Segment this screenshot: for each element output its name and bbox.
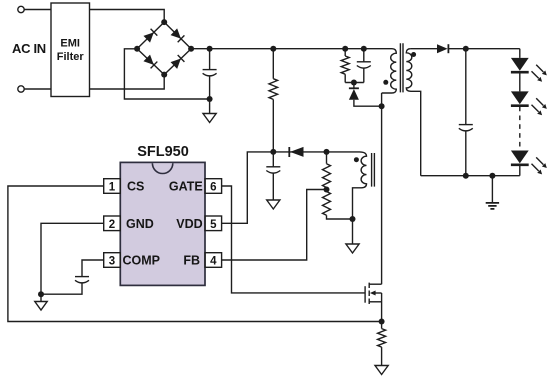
svg-text:CS: CS bbox=[127, 180, 144, 194]
wire: MOSFET source to sense node bbox=[381, 293, 383, 322]
IC pin 5 box bbox=[205, 216, 222, 231]
transformer auxiliary winding bbox=[353, 152, 367, 219]
wire: COMP pin3 to comp cap bbox=[82, 260, 104, 276]
junction: bridge bottom node bbox=[161, 72, 167, 78]
wire: top terminal to EMI filter bbox=[24, 9, 51, 11]
junction: GND/COMP ground node bbox=[38, 291, 44, 297]
junction: bulk cap top on DC rail bbox=[207, 46, 213, 52]
earth ground: output return bbox=[491, 176, 493, 203]
transformer T1 core bbox=[400, 43, 403, 92]
bridge diode D4 (bottom node to right node) bbox=[170, 55, 184, 69]
capacitor: VDD bypass cap bbox=[272, 152, 274, 167]
svg-text:GND: GND bbox=[126, 217, 154, 231]
svg-text:EMI: EMI bbox=[60, 38, 80, 50]
svg-text:5: 5 bbox=[210, 219, 217, 231]
svg-text:SFL950: SFL950 bbox=[137, 144, 189, 160]
phase dot: secondary bbox=[411, 52, 416, 57]
IC pin 4 box bbox=[205, 253, 222, 268]
junction: bridge left node bbox=[134, 46, 140, 52]
wire: LED3 to return rail bbox=[519, 165, 521, 176]
LED D9 light arrows bbox=[536, 157, 547, 168]
svg-text:VDD: VDD bbox=[176, 217, 202, 231]
phase dot: aux winding bbox=[354, 157, 359, 162]
junction: snubber RC bottom bbox=[351, 80, 357, 86]
junction: output cap bottom bbox=[463, 173, 469, 179]
wire: secondary top to output diode bbox=[411, 48, 437, 50]
junction: output cap top bbox=[463, 46, 469, 52]
junction: aux winding bottom bbox=[350, 216, 356, 222]
wire: bridge negative return (left node down and right to bulk cap) bbox=[124, 49, 209, 99]
IC U1 SFL950 body bbox=[120, 162, 205, 285]
wire: CS pin1 loop to current sense node bbox=[8, 186, 382, 322]
transformer T1 primary winding bbox=[382, 49, 397, 93]
junction: startup resistor top on DC rail bbox=[270, 46, 276, 52]
LED D7 bbox=[511, 58, 529, 71]
ground: input bulk cap bbox=[209, 99, 211, 114]
wire: MOSFET drain to primary bottom bbox=[381, 93, 383, 284]
wire: bottom terminal to EMI filter bbox=[24, 88, 51, 90]
ground: VDD cap bbox=[267, 200, 280, 209]
LED D9 bbox=[511, 151, 529, 164]
wire: VDD node to aux winding (through diode) bbox=[273, 151, 359, 153]
transformer T1 secondary winding bbox=[406, 49, 420, 176]
junction: primary bottom / clamp anode bbox=[379, 103, 385, 109]
svg-text:COMP: COMP bbox=[123, 254, 161, 268]
resistor: snubber clamp resistor bbox=[344, 49, 346, 56]
wire: output diode cathode to LED string top bbox=[448, 48, 519, 50]
svg-text:GATE: GATE bbox=[169, 180, 203, 194]
wire: FB pin4 to divider tap bbox=[222, 190, 327, 261]
resistor: FB divider lower bbox=[326, 190, 328, 192]
junction: bulk cap bottom / return bbox=[207, 96, 213, 102]
LED D7 light arrows bbox=[536, 65, 547, 76]
wire: EMI filter bottom output to bridge bottom node bbox=[90, 75, 165, 89]
svg-text:2: 2 bbox=[109, 219, 115, 231]
svg-text:AC IN: AC IN bbox=[12, 41, 46, 56]
wire: GATE pin6 to MOSFET gate bbox=[222, 186, 366, 293]
diode: output rectifier bbox=[437, 44, 448, 53]
svg-text:FB: FB bbox=[183, 254, 200, 268]
wire: rectified DC rail (bridge right node to transformer primary) bbox=[191, 48, 392, 50]
capacitor: snubber clamp cap bbox=[363, 49, 365, 62]
transformer aux core bbox=[372, 153, 375, 187]
ground: aux winding return bbox=[352, 219, 354, 244]
junction: divider top on aux wire bbox=[324, 149, 330, 155]
diode: VDD rectifier (cathode left) bbox=[288, 147, 290, 157]
wire: dashed (more LEDs in series) bbox=[519, 107, 521, 151]
junction: bridge top node bbox=[161, 19, 167, 25]
capacitor: input bulk cap bbox=[209, 49, 211, 70]
IC U1 pin-1 notch bbox=[152, 163, 172, 173]
diode: snubber clamp diode (cathode up) bbox=[353, 83, 355, 89]
EMI filter block bbox=[51, 3, 90, 97]
svg-text:Filter: Filter bbox=[57, 51, 85, 63]
junction: VDD node bbox=[270, 149, 276, 155]
phase dot: primary bbox=[383, 80, 388, 85]
ground: IC GND bbox=[40, 294, 42, 301]
bridge diode D2 (top node to right node) bbox=[170, 28, 184, 42]
wire: output return rail bbox=[421, 175, 520, 177]
ground: sense resistor bbox=[375, 366, 388, 375]
capacitor: output filter cap bbox=[465, 49, 467, 125]
junction: FB divider tap bbox=[324, 187, 330, 193]
LED D8 light arrows bbox=[536, 98, 547, 109]
terminal: AC line input bottom bbox=[18, 86, 24, 92]
wire: GND pin2 to ground bbox=[41, 223, 104, 294]
wire: clamp diode anode to primary bottom / drain node bbox=[354, 100, 382, 106]
wire: snubber RC bottom join bbox=[345, 82, 364, 84]
terminal: AC line input top bbox=[18, 6, 24, 12]
LED D8 bbox=[511, 91, 529, 104]
junction: source / CS sense node bbox=[379, 319, 385, 325]
junction: bridge right node bbox=[188, 46, 194, 52]
svg-text:4: 4 bbox=[210, 256, 217, 268]
junction: snubber resistor top on DC rail bbox=[342, 46, 348, 52]
IC pin 1 box bbox=[104, 179, 121, 194]
wire: VDD pin5 to VDD node bbox=[222, 152, 274, 223]
resistor: FB divider upper bbox=[326, 152, 328, 164]
wire: LED string top bbox=[519, 49, 521, 58]
resistor: current sense bbox=[381, 322, 383, 329]
IC pin 2 box bbox=[104, 216, 121, 231]
bridge diode D1 (left node to top node) bbox=[143, 29, 157, 43]
junction: output return / earth ground tap bbox=[489, 173, 495, 179]
transistor Q1 power MOSFET bbox=[364, 286, 366, 303]
resistor: startup resistor from DC rail to VDD node bbox=[272, 49, 274, 79]
IC pin 3 box bbox=[104, 253, 121, 268]
svg-text:1: 1 bbox=[109, 182, 116, 194]
wire: LED1 to LED2 bbox=[519, 72, 521, 91]
IC pin 6 box bbox=[205, 179, 222, 194]
capacitor: COMP compensation cap bbox=[75, 276, 89, 278]
svg-text:3: 3 bbox=[109, 256, 115, 268]
bridge diode D3 (left node to bottom node) bbox=[143, 54, 157, 68]
wire: EMI filter top output to bridge top node bbox=[90, 10, 165, 23]
junction: snubber cap top on DC rail bbox=[361, 46, 367, 52]
svg-text:6: 6 bbox=[210, 182, 216, 194]
bridge rectifier diamond wires bbox=[137, 22, 191, 75]
